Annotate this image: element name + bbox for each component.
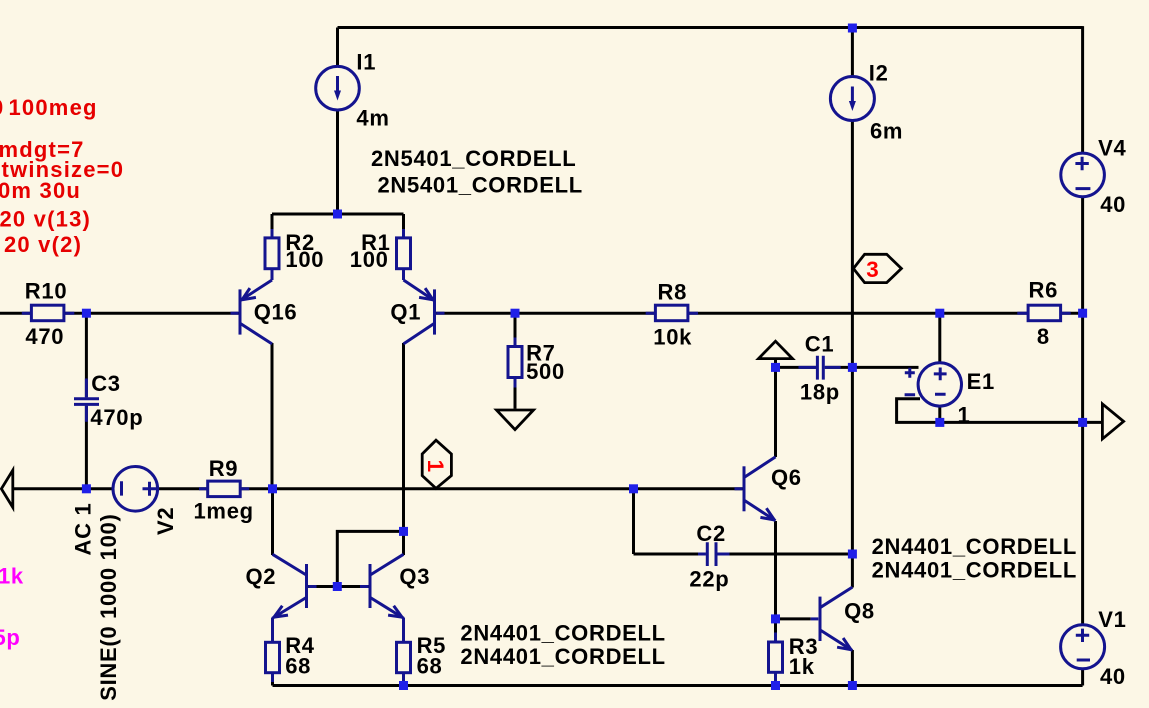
- wire E1 negative loop and output: [897, 399, 1103, 423]
- svg-text:Q16: Q16: [254, 300, 298, 325]
- svg-text:R10: R10: [25, 278, 67, 303]
- svg-text:20 v(13): 20 v(13): [0, 206, 91, 231]
- wire input rail: [13, 487, 744, 490]
- dependent source E1: [905, 363, 962, 406]
- node 1 flag: [422, 440, 451, 488]
- svg-text:AC 1: AC 1: [71, 503, 96, 556]
- svg-text:100: 100: [285, 247, 324, 272]
- wire C1 right to E1: [825, 366, 919, 369]
- svg-text:10k: 10k: [653, 325, 692, 350]
- wire R5 column: [402, 618, 405, 686]
- resistor R9: [199, 481, 249, 497]
- wire Q6 emitter column: [774, 521, 777, 619]
- svg-text:V2: V2: [153, 507, 178, 535]
- svg-text:1k: 1k: [789, 654, 815, 679]
- transistor Q1: [404, 280, 445, 344]
- voltage source V1: [1061, 625, 1105, 669]
- capacitor C1: [799, 356, 841, 380]
- wire top rail: [338, 26, 1083, 29]
- wire R1 top lead: [402, 214, 405, 237]
- transistor Q8: [811, 587, 853, 650]
- capacitor C3: [74, 379, 99, 422]
- wire R2 top lead: [271, 214, 274, 237]
- svg-text:2N5401_CORDELL: 2N5401_CORDELL: [371, 146, 576, 171]
- svg-text:1meg: 1meg: [194, 499, 254, 524]
- svg-text:4m: 4m: [356, 106, 389, 131]
- svg-text:22p: 22p: [689, 567, 729, 592]
- svg-text:20 v(2): 20 v(2): [4, 232, 82, 257]
- svg-text:0: 0: [0, 95, 4, 120]
- wire R2-R1 header: [272, 213, 404, 216]
- transistor Q2: [273, 554, 317, 618]
- voltage source V4: [1061, 153, 1105, 197]
- svg-text:Q3: Q3: [399, 564, 430, 589]
- svg-text:R8: R8: [658, 280, 688, 305]
- transistor Q16: [231, 280, 273, 344]
- svg-text:470: 470: [25, 324, 64, 349]
- svg-text:C3: C3: [91, 371, 121, 396]
- svg-text:3: 3: [866, 257, 878, 282]
- resistor R10: [22, 305, 75, 321]
- wire up-flag stub: [774, 359, 777, 368]
- wire bottom rail: [273, 684, 1083, 687]
- wire Q8 emitter column: [851, 650, 854, 686]
- svg-text:100meg: 100meg: [9, 95, 98, 120]
- wire E1 top lead: [938, 313, 941, 422]
- resistor R8: [646, 305, 698, 321]
- wire Q1 collector column: [402, 343, 405, 531]
- resistor R4: [266, 618, 280, 683]
- svg-text:I1: I1: [356, 50, 376, 75]
- svg-text:8: 8: [1037, 324, 1050, 349]
- svg-text:C1: C1: [805, 332, 835, 357]
- svg-text:Q6: Q6: [771, 465, 802, 490]
- wire R3 column: [774, 619, 777, 686]
- svg-text:40: 40: [1100, 664, 1126, 689]
- svg-text:Q1: Q1: [390, 300, 421, 325]
- svg-text:Q2: Q2: [246, 564, 277, 589]
- wire I1 column: [336, 28, 339, 215]
- svg-text:SINE(0 1000 100): SINE(0 1000 100): [96, 513, 121, 700]
- wire C3 branch upper: [85, 313, 88, 397]
- svg-text:5p: 5p: [0, 625, 21, 650]
- svg-text:1: 1: [958, 403, 971, 428]
- svg-text:R6: R6: [1029, 278, 1059, 303]
- svg-text:E1: E1: [967, 369, 995, 394]
- power flag up: [759, 341, 793, 358]
- svg-text:68: 68: [285, 654, 311, 679]
- svg-text:1: 1: [423, 460, 448, 472]
- svg-text:0m 30u: 0m 30u: [0, 178, 81, 203]
- svg-text:18p: 18p: [800, 380, 840, 405]
- current source I2: [830, 77, 874, 121]
- wire Q2 base link: [337, 531, 403, 586]
- capacitor C2: [698, 542, 730, 566]
- svg-text:1k: 1k: [0, 564, 24, 589]
- svg-text:6m: 6m: [870, 119, 903, 144]
- wire left rail to Q16 base: [0, 312, 239, 315]
- svg-text:2N4401_CORDELL: 2N4401_CORDELL: [872, 534, 1077, 559]
- voltage source V2: [113, 467, 158, 512]
- wire Q2-Q3 base: [308, 585, 369, 588]
- svg-text:100: 100: [350, 247, 389, 272]
- svg-text:V4: V4: [1098, 136, 1126, 161]
- resistor R1: [397, 229, 411, 280]
- wire Q16 collector column: [271, 343, 274, 489]
- current source I1: [316, 66, 360, 110]
- ground: [497, 410, 534, 430]
- node 3 flag: [853, 254, 901, 282]
- output port arrow: [1102, 404, 1123, 439]
- wire Q2 collector stub: [271, 489, 274, 555]
- svg-text:2N5401_CORDELL: 2N5401_CORDELL: [378, 173, 583, 198]
- wire C2 left branch: [634, 489, 706, 554]
- transistor Q3: [360, 554, 404, 618]
- wire R7 branch: [514, 313, 517, 409]
- svg-text:68: 68: [417, 654, 443, 679]
- wire C1 left: [776, 366, 816, 369]
- resistor R5: [397, 618, 411, 683]
- resistor R6: [1017, 305, 1070, 321]
- svg-text:2N4401_CORDELL: 2N4401_CORDELL: [460, 621, 665, 646]
- wire I2 top stub: [851, 28, 854, 588]
- input port arrow: [1, 470, 12, 507]
- wire Q3 collector stub: [402, 531, 405, 555]
- transistor Q6: [735, 457, 776, 521]
- svg-text:500: 500: [526, 359, 565, 384]
- svg-text:Q8: Q8: [844, 599, 875, 624]
- wire Q1 base to V4 column: [436, 312, 1083, 315]
- resistor R7: [508, 338, 522, 388]
- svg-text:40: 40: [1100, 192, 1126, 217]
- wire Q6 collector column: [774, 367, 777, 457]
- wire R4 column: [271, 618, 274, 686]
- svg-text:C2: C2: [696, 521, 726, 546]
- resistor R2: [265, 229, 279, 280]
- svg-text:V1: V1: [1098, 607, 1126, 632]
- svg-text:2N4401_CORDELL: 2N4401_CORDELL: [872, 558, 1077, 583]
- svg-text:I2: I2: [869, 61, 889, 86]
- wire C2 right: [718, 553, 853, 556]
- wire V4-V1 column: [1081, 26, 1084, 685]
- wire Q8 base: [776, 617, 811, 620]
- svg-text:2N4401_CORDELL: 2N4401_CORDELL: [460, 644, 665, 669]
- resistor R3: [769, 633, 783, 682]
- svg-text:470p: 470p: [90, 405, 143, 430]
- svg-text:R9: R9: [209, 456, 239, 481]
- wire C3 branch lower: [85, 406, 88, 489]
